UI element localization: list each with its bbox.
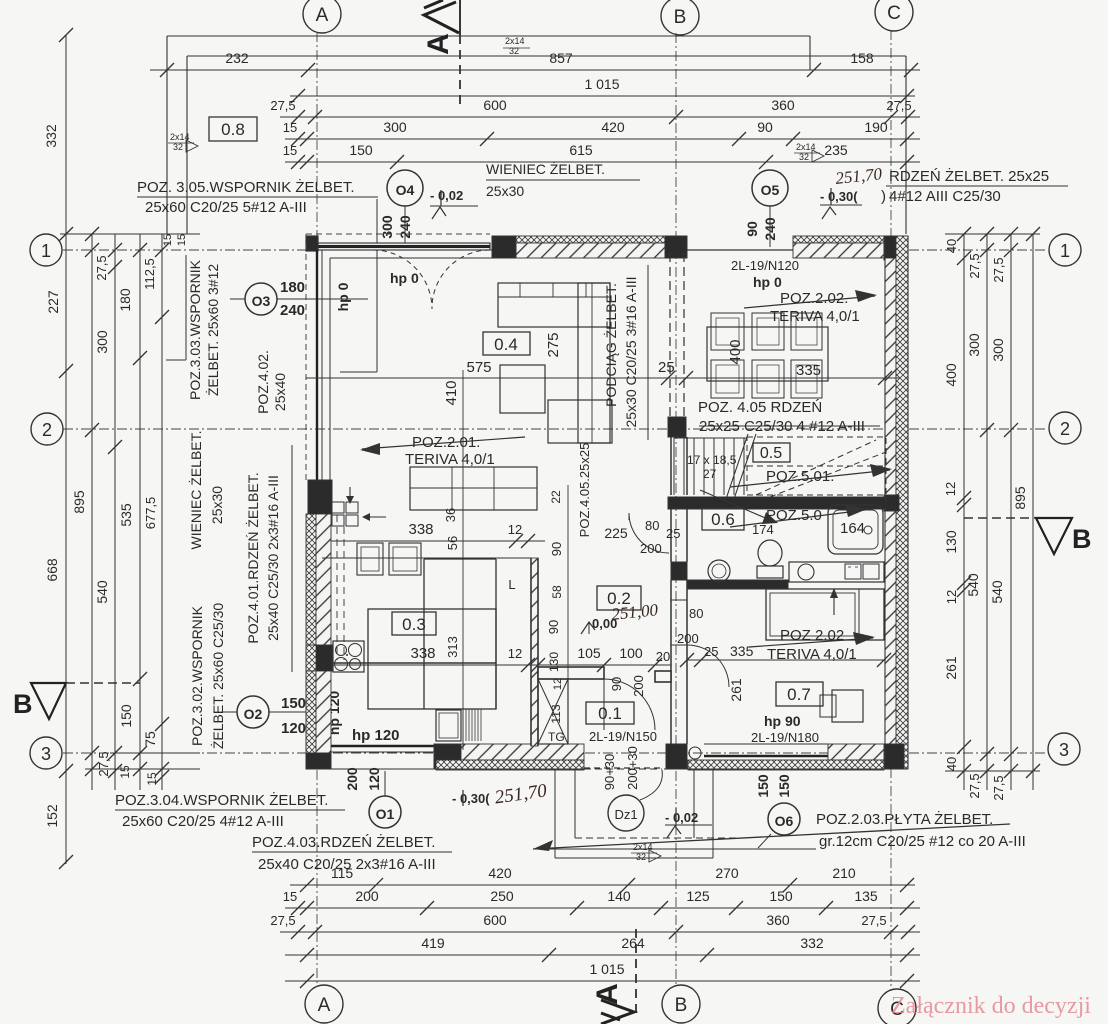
svg-text:200: 200 <box>640 541 662 556</box>
svg-text:12: 12 <box>552 678 564 690</box>
section A marker top <box>459 0 461 35</box>
svg-text:400: 400 <box>727 339 744 364</box>
svg-text:20: 20 <box>656 649 670 664</box>
left top connector y234 <box>60 233 200 235</box>
svg-text:C: C <box>887 3 901 24</box>
left wall column kitchen <box>316 645 332 671</box>
bed arrow <box>833 592 835 615</box>
svg-text:27,5: 27,5 <box>96 751 111 776</box>
bottom dim row 2: 15 200 250 140 125 150 135 <box>285 907 920 909</box>
left dim vertical x140 <box>139 234 141 790</box>
svg-text:POZ.4.03.RDZEŃ ŻELBET.: POZ.4.03.RDZEŃ ŻELBET. <box>252 833 435 851</box>
svg-text:1 015: 1 015 <box>584 76 619 92</box>
stove <box>333 641 364 672</box>
svg-text:158: 158 <box>850 50 874 66</box>
svg-text:2: 2 <box>42 420 52 440</box>
wash basin <box>708 560 730 582</box>
svg-text:15: 15 <box>162 234 174 246</box>
stair break line <box>726 434 748 499</box>
svg-text:27,5: 27,5 <box>270 98 295 113</box>
window marker O3 <box>245 283 277 315</box>
left wall hatched lower part <box>306 514 316 753</box>
axis bubble 1 right <box>1049 234 1081 266</box>
svg-text:1: 1 <box>1060 241 1070 261</box>
svg-text:POZ. 4.05 RDZEŃ: POZ. 4.05 RDZEŃ <box>698 399 822 416</box>
bottom wall column right of door <box>666 744 687 769</box>
room label 0.3 <box>392 612 436 635</box>
svg-text:15: 15 <box>118 765 132 779</box>
dining chairs bottom <box>711 360 744 398</box>
big table <box>410 467 537 510</box>
svg-text:25: 25 <box>704 644 718 659</box>
svg-text:677,5: 677,5 <box>143 497 158 530</box>
svg-text:O4: O4 <box>396 182 415 198</box>
sofa L-shape <box>498 283 610 327</box>
top dim row 3: 27,5 600 360 27,5 <box>280 116 920 118</box>
fridge symbols <box>332 502 344 513</box>
svg-text:80: 80 <box>689 606 703 621</box>
bathtub <box>828 505 883 554</box>
svg-text:32: 32 <box>636 852 646 862</box>
column top wall right <box>665 236 687 258</box>
bottom wall window band O6 <box>704 743 828 745</box>
svg-text:B: B <box>675 995 688 1016</box>
room label 0.7 <box>776 682 823 706</box>
svg-text:POZ.2.03.PŁYTA ŻELBET.: POZ.2.03.PŁYTA ŻELBET. <box>816 810 993 828</box>
stairs risers <box>673 438 675 495</box>
svg-text:0.6: 0.6 <box>711 510 735 529</box>
axis 3 line <box>63 752 1048 754</box>
svg-text:27,5: 27,5 <box>886 98 911 113</box>
svg-text:25: 25 <box>658 359 675 376</box>
axis 1 line <box>63 249 1048 251</box>
dish rack <box>462 709 464 741</box>
svg-text:POZ. 3.05.WSPORNIK ŻELBET.: POZ. 3.05.WSPORNIK ŻELBET. <box>137 178 355 196</box>
svg-text:600: 600 <box>483 912 507 928</box>
axis C line <box>890 30 892 986</box>
svg-text:25x30 C20/25 3#16 A-III: 25x30 C20/25 3#16 A-III <box>623 277 639 428</box>
axis 2 line <box>63 428 1048 430</box>
svg-text:668: 668 <box>44 558 60 582</box>
svg-text:12: 12 <box>943 482 958 496</box>
stairs dashed flight <box>747 437 886 495</box>
svg-text:235: 235 <box>824 142 848 158</box>
svg-text:POZ.3.02.WSPORNIK: POZ.3.02.WSPORNIK <box>189 605 205 746</box>
svg-text:B: B <box>13 689 33 719</box>
label 0.8 terrace <box>209 117 257 141</box>
interior dashed wall living/dining <box>669 253 671 417</box>
svg-text:36: 36 <box>443 508 458 522</box>
svg-text:113: 113 <box>549 704 563 723</box>
svg-text:PODCIĄG ŻELBET.: PODCIĄG ŻELBET. <box>602 283 619 407</box>
top wall window band O4 <box>306 233 490 235</box>
svg-text:410: 410 <box>443 380 460 405</box>
axis bubble C bottom <box>878 989 916 1024</box>
svg-text:1 015: 1 015 <box>589 961 624 977</box>
svg-text:A: A <box>316 5 329 26</box>
svg-text:150: 150 <box>118 704 134 728</box>
svg-text:hp 90: hp 90 <box>764 713 801 729</box>
axis B line <box>675 33 677 984</box>
svg-text:200+30: 200+30 <box>625 746 640 790</box>
svg-text:540: 540 <box>965 573 981 597</box>
axis bubble B bottom <box>662 985 700 1023</box>
svg-text:90: 90 <box>549 542 564 556</box>
svg-text:hp 120: hp 120 <box>352 727 400 744</box>
svg-text:250: 250 <box>490 888 514 904</box>
top dim row 4: 15 300 420 90 190 <box>285 138 920 140</box>
svg-text:150: 150 <box>776 774 792 798</box>
interior wall faces top-left <box>329 258 331 480</box>
svg-text:150: 150 <box>769 888 793 904</box>
hall/vestibule wall with door <box>538 667 604 679</box>
right dim vertical x987 <box>986 234 988 790</box>
right connector y234 <box>945 233 1040 235</box>
svg-text:90: 90 <box>757 119 773 135</box>
stair left wall <box>670 437 672 495</box>
svg-text:540: 540 <box>989 580 1005 604</box>
svg-text:Załącznik do decyzji: Załącznik do decyzji <box>891 993 1091 1019</box>
svg-text:): ) <box>881 188 886 205</box>
room label 0.2 <box>597 586 641 610</box>
kitchen counter edge <box>331 662 496 664</box>
bottom dim row 1: 115 420 270 210 <box>290 884 915 886</box>
svg-text:895: 895 <box>1012 486 1028 510</box>
axis bubble 2 left <box>31 413 63 445</box>
svg-text:100: 100 <box>619 645 643 661</box>
vent circle in wall <box>689 747 701 759</box>
kitchen dims row 338 313 12 105 100 20 <box>331 664 671 666</box>
svg-text:12: 12 <box>508 522 522 537</box>
axis bubble 3 left <box>30 737 62 769</box>
svg-text:- 0,30(: - 0,30( <box>820 189 858 204</box>
right dim vertical x1011 <box>1010 234 1012 790</box>
room label 0.1 <box>586 702 634 724</box>
svg-text:POZ.2.02.: POZ.2.02. <box>780 290 848 307</box>
svg-text:27,5: 27,5 <box>94 255 109 280</box>
svg-text:4#12 AIII C25/30: 4#12 AIII C25/30 <box>889 188 1001 205</box>
svg-text:3: 3 <box>1059 740 1069 760</box>
svg-text:12: 12 <box>508 646 522 661</box>
svg-text:hp 0: hp 0 <box>390 270 419 286</box>
svg-text:25: 25 <box>666 526 680 541</box>
svg-text:190: 190 <box>864 119 888 135</box>
column living/dining <box>668 417 686 437</box>
dim 575 410 living <box>306 377 899 379</box>
svg-text:200: 200 <box>355 888 379 904</box>
svg-text:300: 300 <box>94 330 110 354</box>
svg-text:15: 15 <box>145 772 159 786</box>
svg-text:264: 264 <box>621 935 645 951</box>
top wall door opening sill <box>687 249 793 251</box>
kitchen island <box>368 609 496 709</box>
svg-text:0,00: 0,00 <box>592 616 617 631</box>
svg-text:A: A <box>422 33 455 55</box>
bottom dim row 3: 27,5 600 360 27,5 <box>280 931 920 933</box>
bed <box>766 589 884 640</box>
right wall hatched <box>885 258 896 495</box>
svg-text:0.5: 0.5 <box>760 445 782 462</box>
svg-text:hp 0: hp 0 <box>753 274 782 290</box>
window marker O5 <box>752 170 788 206</box>
svg-text:O5: O5 <box>761 182 780 198</box>
svg-text:WIENIEC ŻELBET.: WIENIEC ŻELBET. <box>486 160 605 177</box>
svg-text:A: A <box>318 995 331 1016</box>
room label 0.6 <box>702 508 744 530</box>
svg-text:15: 15 <box>283 120 297 135</box>
svg-text:90: 90 <box>609 677 624 691</box>
svg-text:261: 261 <box>943 656 959 680</box>
svg-text:75: 75 <box>142 731 158 747</box>
svg-text:150: 150 <box>349 142 373 158</box>
svg-text:140: 140 <box>607 888 631 904</box>
svg-text:332: 332 <box>800 935 824 951</box>
svg-text:TERIVA 4,0/1: TERIVA 4,0/1 <box>405 451 495 468</box>
door arc bath <box>629 513 669 553</box>
right chain 22 90 58 90 30 130 113 12 <box>567 485 569 744</box>
top dim row 1: 232 857 158 <box>150 69 920 71</box>
svg-text:2L-19/N120: 2L-19/N120 <box>731 258 799 273</box>
column top wall left <box>492 236 516 258</box>
svg-text:895: 895 <box>71 490 87 514</box>
door arc bedroom 0.7 <box>687 645 729 687</box>
svg-text:ŻELBET. 25x60 C25/30: ŻELBET. 25x60 C25/30 <box>209 603 226 750</box>
svg-text:WIENIEC ŻELBET.: WIENIEC ŻELBET. <box>187 430 204 549</box>
dining chairs top <box>711 313 744 350</box>
svg-text:135: 135 <box>854 888 878 904</box>
axis bubble C top <box>875 0 913 31</box>
svg-text:40: 40 <box>944 757 959 771</box>
window marker O1 <box>369 796 401 828</box>
svg-text:261: 261 <box>728 678 744 702</box>
door arc vestibule <box>604 679 655 730</box>
svg-text:130: 130 <box>547 652 561 672</box>
svg-text:TERIVA 4,0/1: TERIVA 4,0/1 <box>770 308 860 325</box>
svg-text:174: 174 <box>752 522 774 537</box>
top-left corner block <box>306 236 318 251</box>
svg-text:240: 240 <box>280 302 305 319</box>
X-pier TG shaft <box>538 679 568 744</box>
bottom wall window band hp120 (O1) <box>331 745 434 748</box>
svg-text:POZ 2.02: POZ 2.02 <box>780 627 844 644</box>
left dim vertical x92 <box>91 234 93 790</box>
bottom dim row 5: 1015 <box>285 980 920 982</box>
svg-text:POZ.3.04.WSPORNIK ŻELBET.: POZ.3.04.WSPORNIK ŻELBET. <box>115 791 328 809</box>
svg-text:32: 32 <box>799 152 809 162</box>
svg-text:15: 15 <box>283 889 297 904</box>
axis bubble 2 right <box>1049 412 1081 444</box>
svg-text:O1: O1 <box>376 806 395 822</box>
svg-text:360: 360 <box>766 912 790 928</box>
bottom wall hatched x461-584 <box>461 744 584 760</box>
bedroom dim 25 335 261 <box>687 659 884 661</box>
axis bubble A bottom <box>305 985 343 1023</box>
svg-text:152: 152 <box>44 804 60 828</box>
room label 0.4 <box>483 332 530 355</box>
left dim vertical x162 <box>161 234 163 790</box>
svg-text:15: 15 <box>283 143 297 158</box>
svg-text:535: 535 <box>118 503 134 527</box>
svg-text:56: 56 <box>445 536 460 550</box>
right dim vertical x1033 <box>1032 234 1034 790</box>
bath/hall wall column <box>671 562 687 580</box>
kitchen/hall wall <box>531 558 538 746</box>
svg-text:POZ.4.02.: POZ.4.02. <box>255 350 271 414</box>
svg-text:0.1: 0.1 <box>598 704 622 723</box>
svg-text:338: 338 <box>408 521 433 538</box>
bottom dim row 4: 419 264 332 <box>285 954 920 956</box>
svg-text:32: 32 <box>509 46 519 56</box>
top-right corner block <box>884 236 908 260</box>
leader line POZ 3.05 <box>376 199 378 372</box>
svg-text:- 0,30(: - 0,30( <box>452 791 490 806</box>
svg-text:hp 0: hp 0 <box>335 282 351 311</box>
window marker O6 <box>768 803 800 835</box>
svg-text:27: 27 <box>703 467 717 481</box>
svg-text:25x40 C20/25 2x3#16 A-III: 25x40 C20/25 2x3#16 A-III <box>258 856 436 873</box>
svg-text:180: 180 <box>280 279 305 296</box>
bath bottom wall <box>687 580 788 589</box>
section A marker bottom <box>635 929 637 1016</box>
svg-text:RDZEŃ ŻELBET. 25x25: RDZEŃ ŻELBET. 25x25 <box>889 167 1049 185</box>
sink cabinet <box>436 710 461 741</box>
terrace outline top <box>187 55 906 57</box>
svg-text:150: 150 <box>755 774 771 798</box>
svg-text:540: 540 <box>94 580 110 604</box>
svg-text:12: 12 <box>944 590 959 604</box>
svg-text:0.3: 0.3 <box>402 615 426 634</box>
wall under stairs y497-509 <box>668 497 886 509</box>
right dim vertical x964 <box>963 234 965 790</box>
svg-text:313: 313 <box>445 636 460 658</box>
Dz1 marker <box>608 795 644 831</box>
svg-text:25x30: 25x30 <box>486 183 524 199</box>
svg-text:0.7: 0.7 <box>787 685 811 704</box>
svg-text:15: 15 <box>176 234 188 246</box>
top dim row 5: 15 150 615 235 <box>285 161 920 163</box>
svg-text:419: 419 <box>421 935 445 951</box>
svg-text:22: 22 <box>549 490 563 504</box>
svg-text:80: 80 <box>645 518 659 533</box>
axis bubble B top <box>661 0 699 35</box>
svg-text:2: 2 <box>1060 419 1070 439</box>
kitchen dims 338 12 <box>331 540 545 542</box>
axis bubble 3 right <box>1048 733 1080 765</box>
svg-text:270: 270 <box>715 865 739 881</box>
svg-text:25x60 C20/25 4#12 A-III: 25x60 C20/25 4#12 A-III <box>122 813 284 830</box>
svg-text:58: 58 <box>550 585 564 599</box>
svg-text:338: 338 <box>410 645 435 662</box>
svg-text:90: 90 <box>744 221 760 237</box>
axis A line <box>316 32 318 984</box>
svg-text:120: 120 <box>366 767 382 791</box>
svg-text:27,5: 27,5 <box>270 913 295 928</box>
svg-text:O3: O3 <box>252 293 271 309</box>
svg-text:90+30: 90+30 <box>602 754 617 791</box>
svg-text:420: 420 <box>601 119 625 135</box>
room label 0.5 <box>753 443 790 462</box>
svg-text:300: 300 <box>990 338 1006 362</box>
door arcs french door top <box>373 250 432 309</box>
svg-text:225: 225 <box>604 525 628 541</box>
bottom wall column left <box>434 744 461 769</box>
svg-text:335: 335 <box>796 362 821 379</box>
svg-text:TG: TG <box>548 730 565 744</box>
svg-text:615: 615 <box>569 142 593 158</box>
window marker O2 <box>237 696 269 728</box>
top wall hatched segment x793-908 <box>793 236 884 243</box>
svg-text:360: 360 <box>771 97 795 113</box>
desk and chair <box>832 690 863 722</box>
svg-text:O6: O6 <box>775 813 794 829</box>
svg-text:POZ.3.03.WSPORNIK: POZ.3.03.WSPORNIK <box>187 259 203 400</box>
right connector y771 <box>945 770 1040 772</box>
svg-text:25x40: 25x40 <box>272 373 288 411</box>
svg-text:2x14: 2x14 <box>505 36 525 46</box>
kitchen arrows <box>349 487 351 500</box>
svg-text:POZ.4.01.RDZEŃ ŻELBET.: POZ.4.01.RDZEŃ ŻELBET. <box>244 472 261 643</box>
svg-text:Dz1: Dz1 <box>614 807 637 822</box>
top wall hatched segment x490-687 <box>516 236 665 243</box>
svg-text:0.4: 0.4 <box>494 335 518 354</box>
svg-text:120: 120 <box>281 720 306 737</box>
svg-text:25x30: 25x30 <box>209 486 225 524</box>
left dim vertical x66 <box>65 35 67 864</box>
right wall bottom corner block <box>884 744 904 769</box>
axis bubble 1 left <box>30 234 62 266</box>
svg-text:POZ.4.05.25x25: POZ.4.05.25x25 <box>577 443 592 538</box>
svg-text:B: B <box>1072 524 1092 554</box>
svg-text:27,5: 27,5 <box>991 775 1006 800</box>
dashed beam POZ.4.02 left wall <box>336 515 338 660</box>
window marker O4 <box>387 170 423 206</box>
svg-text:112,5: 112,5 <box>142 258 157 290</box>
svg-text:332: 332 <box>43 124 59 148</box>
svg-text:ŻELBET. 25x60 3#12: ŻELBET. 25x60 3#12 <box>204 264 221 397</box>
svg-text:200: 200 <box>344 767 360 791</box>
svg-text:105: 105 <box>577 645 601 661</box>
svg-text:227: 227 <box>45 290 61 314</box>
wall 0.1/0.7 vertical with door <box>670 580 672 744</box>
svg-text:125: 125 <box>686 888 710 904</box>
svg-text:575: 575 <box>466 359 491 376</box>
laundry counter <box>789 562 884 582</box>
svg-text:300: 300 <box>966 333 982 357</box>
stair direction arrow <box>700 490 770 520</box>
svg-text:300: 300 <box>379 215 395 239</box>
svg-text:40: 40 <box>944 239 959 253</box>
svg-text:- 0,02: - 0,02 <box>430 188 463 203</box>
living/kitchen boundary line <box>322 557 531 559</box>
svg-text:164: 164 <box>840 520 865 537</box>
svg-text:180: 180 <box>117 288 133 312</box>
left wall bottom corner <box>306 753 331 769</box>
svg-text:B: B <box>674 7 687 28</box>
svg-text:3: 3 <box>41 744 51 764</box>
svg-text:420: 420 <box>488 865 512 881</box>
svg-text:200: 200 <box>631 675 646 697</box>
svg-text:17 x 18,5: 17 x 18,5 <box>687 453 737 467</box>
dining table <box>707 327 828 381</box>
section B marker right <box>964 517 1036 519</box>
svg-text:150: 150 <box>281 695 306 712</box>
svg-text:400: 400 <box>943 363 959 387</box>
roof outline top <box>167 35 810 37</box>
svg-text:200: 200 <box>677 631 699 646</box>
kitchen cabinets (bar chairs) <box>357 543 383 575</box>
left dim vertical x115 <box>114 234 116 790</box>
svg-text:335: 335 <box>730 643 754 659</box>
